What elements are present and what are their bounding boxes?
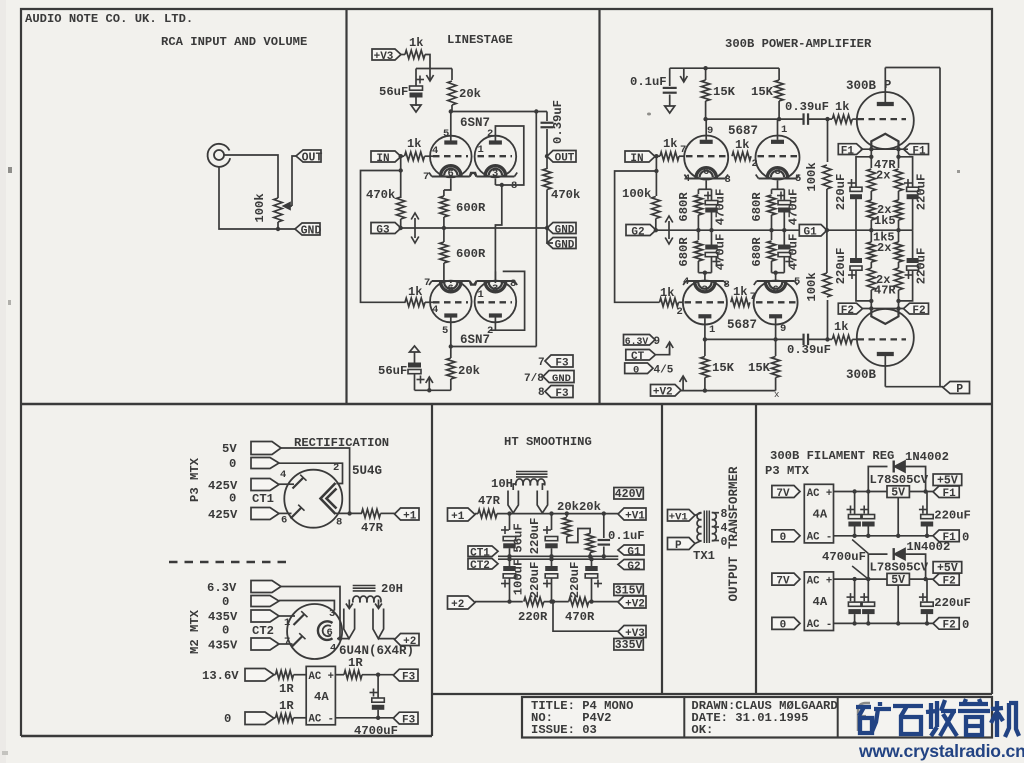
- wire 425V row3 to anode: [279, 483, 294, 485]
- tube 5U4G: [284, 470, 342, 528]
- svg-text:5687: 5687: [727, 318, 757, 332]
- 5U4G anode stroke pin4: [293, 478, 304, 489]
- tag +2 HT: [448, 596, 476, 609]
- 300B lower filament: [871, 309, 898, 324]
- wire F1 bus: [861, 148, 909, 150]
- wire 6.3V to right side: [281, 587, 340, 639]
- svg-text:F2: F2: [912, 305, 925, 317]
- svg-text:2: 2: [752, 158, 758, 170]
- svg-text:F3: F3: [555, 357, 569, 369]
- svg-text:0: 0: [780, 532, 787, 544]
- svg-text:2x: 2x: [876, 169, 890, 183]
- V3 grids dashed: [686, 155, 726, 157]
- svg-text:6: 6: [703, 166, 709, 178]
- capacitor 220uF lower right: [912, 230, 914, 258]
- regulator ground lead F2: [897, 585, 899, 623]
- resistor 20k HT2: [586, 534, 594, 553]
- pot wiper arrow: [290, 205, 292, 207]
- tag GND linestage1: [547, 223, 576, 234]
- boxed label +5V F2: [933, 562, 962, 574]
- 300B lower plate: [877, 352, 894, 356]
- tag GND: [295, 223, 320, 235]
- tag F2 left: [838, 303, 862, 314]
- capacitor 0.39uF lower coupling: [802, 334, 804, 346]
- svg-text:680R: 680R: [750, 192, 764, 222]
- capacitor 470uF #2: [783, 189, 785, 200]
- tag F1 right: [904, 144, 929, 155]
- resistor 1k lower grid: [405, 298, 425, 306]
- wire IN to 1k: [401, 155, 404, 157]
- svg-text:7V: 7V: [776, 488, 790, 500]
- 5U4G cathode chevrons: [321, 483, 336, 514]
- svg-text:G3: G3: [376, 224, 390, 236]
- svg-text:7V: 7V: [776, 575, 790, 587]
- diode 1N4002 F2: [868, 554, 887, 579]
- svg-text:+V1: +V1: [669, 512, 688, 524]
- svg-text:220uF: 220uF: [915, 248, 929, 285]
- tag 425V plain: [251, 479, 279, 491]
- resistor 47R 2x left: [870, 149, 872, 168]
- resistor 15K upper left: [705, 68, 707, 80]
- V4 grids dashed: [685, 301, 726, 303]
- tube 300B lower: [857, 309, 914, 366]
- svg-text:220uF: 220uF: [528, 562, 542, 599]
- svg-text:680R: 680R: [750, 237, 764, 267]
- tag F2 out: [933, 574, 959, 586]
- svg-text:7/8: 7/8: [524, 373, 544, 385]
- svg-text:680R: 680R: [677, 192, 691, 222]
- TX1 secondary taps: [712, 512, 719, 514]
- wire plate rail lower 5687: [704, 318, 706, 339]
- svg-text:0.39uF: 0.39uF: [551, 100, 565, 144]
- svg-text:3: 3: [702, 284, 708, 296]
- tag 6.3V: [624, 335, 656, 346]
- cathode feet notch lower: [470, 281, 477, 285]
- tag GND linestage2: [547, 238, 576, 249]
- svg-text:6: 6: [448, 283, 454, 295]
- wire AC+ F1: [834, 491, 888, 493]
- V2 cathodes top: [432, 280, 470, 282]
- tag IN linestage: [371, 151, 401, 162]
- resistor 1k5 2x right upper: [898, 199, 900, 200]
- wire +V2 rail: [681, 390, 776, 392]
- capacitor 0.1uF HT: [603, 514, 605, 538]
- svg-text:0: 0: [721, 536, 728, 549]
- resistor 600R lower: [443, 228, 445, 242]
- svg-text:G1: G1: [804, 227, 818, 239]
- tube V2 6SN7 lower left triode: [430, 281, 472, 323]
- svg-text:0: 0: [962, 530, 969, 544]
- svg-text:7: 7: [424, 277, 430, 289]
- resistor 47R rect: [362, 509, 381, 517]
- resistor 20k lower: [450, 347, 452, 359]
- wire wiper to OUT: [292, 156, 296, 206]
- svg-text:ISSUE: 03: ISSUE: 03: [531, 723, 597, 737]
- svg-text:GND: GND: [555, 239, 575, 251]
- right rail to P: [939, 68, 941, 387]
- capacitor 56uF lower: [410, 346, 420, 352]
- svg-text:+V3: +V3: [374, 51, 394, 63]
- wire reg out F1: [909, 491, 933, 493]
- svg-text:x: x: [774, 390, 779, 400]
- svg-text:1: 1: [709, 324, 715, 336]
- svg-text:AC +: AC +: [807, 575, 832, 587]
- 6U4N anode stroke pin1: [294, 614, 305, 625]
- svg-text:4A: 4A: [314, 690, 329, 704]
- resistor 1R #1: [274, 674, 276, 676]
- svg-text:F3: F3: [402, 714, 416, 726]
- svg-text:470uF: 470uF: [787, 189, 801, 226]
- svg-text:G2: G2: [631, 226, 644, 238]
- wire 0 to pin2: [279, 463, 343, 483]
- divider horizontal y=404: [21, 403, 992, 406]
- divider vertical HT right x=662: [661, 404, 663, 694]
- resistor 470k left: [400, 171, 402, 199]
- tag 6.3V plain: [251, 581, 281, 593]
- svg-text:RCA INPUT AND VOLUME: RCA INPUT AND VOLUME: [161, 35, 307, 49]
- tube V4 5687 lower right triode: [754, 281, 798, 325]
- svg-text:CT1: CT1: [252, 492, 274, 506]
- wire AC- to F3 bottom: [335, 717, 393, 719]
- bridge box 4A F1: [804, 484, 833, 543]
- tag CT1: [468, 546, 498, 557]
- svg-text:20k: 20k: [458, 364, 480, 378]
- wire AC+ F2: [834, 578, 888, 580]
- svg-text:1k: 1k: [735, 138, 749, 152]
- cathode feet notch upper: [470, 173, 477, 177]
- svg-text:LINESTAGE: LINESTAGE: [447, 33, 513, 47]
- svg-text:435V: 435V: [208, 639, 238, 653]
- svg-text:1k: 1k: [733, 285, 747, 299]
- svg-text:220uF: 220uF: [934, 596, 971, 610]
- svg-text:F2: F2: [942, 576, 955, 588]
- bottom edge of lower boxes y=694: [432, 693, 992, 695]
- tag OUT: [296, 150, 321, 162]
- svg-text:AUDIO NOTE CO. UK. LTD.: AUDIO NOTE CO. UK. LTD.: [25, 12, 193, 26]
- resistor 680R #3 lower: [697, 230, 699, 240]
- tag F2 zero: [933, 618, 959, 630]
- tag 435V plain: [251, 610, 279, 622]
- V2 cathode lead from 600R: [444, 271, 451, 283]
- svg-text:0.1uF: 0.1uF: [630, 75, 667, 89]
- resistor 47R 2x right lower: [898, 263, 900, 268]
- svg-text:4A: 4A: [813, 508, 828, 522]
- wire G3 rail: [401, 227, 549, 229]
- title block frame: [522, 697, 992, 738]
- resistor 15K lower right: [775, 339, 777, 356]
- regulator L78S05CV F2: [887, 573, 909, 585]
- svg-text:100k: 100k: [805, 272, 819, 301]
- capacitor 0.39uF upper coupling: [802, 113, 804, 125]
- svg-text:+V2: +V2: [625, 598, 645, 610]
- svg-text:1k: 1k: [834, 320, 848, 334]
- capacitor 220uF lower left: [855, 230, 857, 258]
- wire RCA to pot top: [224, 155, 278, 198]
- resistor 1k5 2x left upper: [870, 199, 872, 200]
- svg-text:AC -: AC -: [807, 619, 832, 631]
- svg-text:470uF: 470uF: [714, 189, 728, 226]
- TX1 primary leads: [695, 513, 702, 516]
- svg-text:335V: 335V: [615, 639, 643, 652]
- svg-text:300B: 300B: [846, 368, 877, 382]
- svg-text:425V: 425V: [208, 508, 238, 522]
- svg-text:100k: 100k: [622, 187, 651, 201]
- wire 56uF to 20k bottom: [415, 389, 451, 391]
- scan noise marks: [8, 167, 12, 173]
- svg-text:GND: GND: [555, 224, 575, 236]
- resistor 1k 5687 grid upper: [660, 152, 679, 160]
- V1 right plate loop wire: [495, 126, 523, 185]
- svg-text:100k: 100k: [805, 162, 819, 191]
- svg-text:15K: 15K: [713, 85, 736, 99]
- wire CT1 G1 rail: [498, 555, 618, 557]
- svg-text:5U4G: 5U4G: [352, 464, 382, 478]
- svg-text:600R: 600R: [456, 247, 486, 261]
- RCA jack J1: [208, 144, 231, 167]
- svg-text:CT2: CT2: [252, 624, 274, 638]
- wire G2 rail: [656, 229, 799, 231]
- divider vertical output transformer right x=756: [755, 404, 757, 694]
- svg-text:F2: F2: [841, 305, 854, 317]
- lower 100k grid resistor: [827, 300, 829, 339]
- capacitors 4700uF bank F2: [854, 579, 856, 602]
- wire top supply rail: [670, 67, 779, 69]
- wire +V3 to R 1k: [401, 54, 405, 56]
- label 4700uF pointer lower: [852, 566, 868, 579]
- rail tap arrow down top: [683, 68, 685, 82]
- svg-text:+1: +1: [403, 510, 417, 522]
- resistor 1k5 2x left lower: [870, 230, 872, 242]
- wire RCA ground down: [219, 167, 295, 230]
- svg-text:1k: 1k: [409, 36, 423, 50]
- tag +1 rect: [395, 508, 420, 520]
- svg-text:6SN7: 6SN7: [460, 116, 490, 130]
- svg-text:220uF: 220uF: [915, 174, 929, 211]
- svg-text:1R: 1R: [279, 699, 294, 713]
- choke 10H lead loops: [513, 484, 516, 490]
- boxed label 420V: [614, 488, 643, 500]
- right inner rail: [535, 112, 537, 347]
- svg-text:100uF: 100uF: [512, 559, 526, 596]
- svg-text:0: 0: [229, 457, 236, 471]
- svg-text:47R: 47R: [478, 494, 501, 508]
- upper 100k grid resistor: [827, 119, 829, 162]
- svg-text:1R: 1R: [348, 656, 363, 670]
- svg-text:OK:: OK:: [691, 723, 713, 737]
- wire gnd2: [547, 228, 553, 243]
- resistor 220R: [524, 597, 544, 605]
- TX1 secondary winding: [712, 513, 716, 520]
- capacitor 4700uF: [377, 675, 379, 698]
- capacitor 220uF HT1: [551, 514, 553, 530]
- svg-text:5: 5: [795, 173, 801, 185]
- bottle right 10H: [537, 491, 547, 514]
- V1 left cathode: [432, 176, 470, 178]
- svg-text:4700uF: 4700uF: [354, 724, 398, 738]
- svg-text:470uF: 470uF: [787, 234, 801, 271]
- tag G1 inline: [799, 225, 827, 237]
- svg-text:300B: 300B: [846, 79, 877, 93]
- resistor 470k right: [546, 156, 548, 169]
- svg-text:470uF: 470uF: [714, 234, 728, 271]
- V2 left plate lead down: [450, 318, 452, 347]
- svg-text:4: 4: [683, 276, 689, 288]
- tag +V3: [372, 49, 401, 60]
- resistor 47R HT: [475, 513, 478, 515]
- V2 plates: [444, 313, 457, 317]
- svg-text:5: 5: [443, 128, 449, 140]
- tag 7V F1: [772, 486, 800, 498]
- capacitor 470uF #3: [711, 230, 713, 244]
- svg-text:7: 7: [750, 291, 756, 303]
- wire cathode out 6U4N: [337, 638, 349, 640]
- 300B upper filament: [871, 134, 898, 149]
- svg-text:7: 7: [680, 144, 686, 156]
- svg-text:600R: 600R: [456, 201, 486, 215]
- bridge box 4A: [306, 666, 335, 724]
- bridge box 4A F2: [804, 572, 833, 631]
- svg-text:15K: 15K: [712, 361, 735, 375]
- tag 0 plain: [251, 458, 279, 469]
- cathode bars lower: [698, 272, 711, 274]
- svg-text:F1: F1: [912, 145, 926, 157]
- svg-text:7: 7: [423, 171, 429, 183]
- V1 right cathode lead + link down: [494, 179, 496, 186]
- resistor 47R 2x right: [898, 149, 900, 168]
- svg-text:IN: IN: [630, 153, 643, 165]
- svg-text:10H: 10H: [491, 477, 513, 491]
- svg-text:4: 4: [684, 173, 690, 185]
- svg-text:GND: GND: [301, 224, 322, 237]
- V1 left cathode lead: [444, 179, 451, 191]
- resistor 15K upper right: [778, 68, 780, 80]
- resistor 15K lower left: [704, 339, 706, 356]
- svg-text:OUT: OUT: [555, 153, 575, 165]
- svg-text:1R: 1R: [279, 682, 294, 696]
- svg-text:8: 8: [725, 174, 731, 186]
- arrow down into right bottle: [378, 600, 380, 609]
- wire F2 bus: [861, 308, 909, 310]
- svg-text:CT: CT: [631, 351, 645, 363]
- capacitor 470uF #4: [783, 230, 785, 244]
- dashed separator: [169, 561, 291, 564]
- tube V4 5687 lower left triode: [683, 281, 727, 325]
- wire CT jog with arrow: [655, 348, 669, 355]
- tag 5V plain: [251, 442, 281, 455]
- regulator ground lead F1: [897, 498, 899, 536]
- bottle left 20H: [344, 609, 355, 639]
- svg-text:0: 0: [633, 365, 639, 377]
- svg-text:1: 1: [478, 144, 484, 156]
- choke 10H core: [516, 471, 548, 473]
- svg-text:470k: 470k: [366, 188, 395, 202]
- resistor 1k lower mid: [731, 298, 750, 306]
- svg-text:8: 8: [510, 278, 516, 290]
- wire 435V row3 to anode: [279, 615, 295, 617]
- title block divider 1: [683, 697, 685, 738]
- svg-text:56uF: 56uF: [512, 523, 526, 552]
- V2 grids dashed: [433, 301, 468, 303]
- tag F1 out: [933, 486, 959, 498]
- capacitor 470uF #1: [711, 189, 713, 200]
- svg-text:+V2: +V2: [653, 387, 673, 399]
- tag +1 HT: [448, 508, 476, 521]
- svg-text:470R: 470R: [565, 610, 595, 624]
- wire 300B lower plate to P: [885, 386, 940, 388]
- svg-text:435V: 435V: [208, 610, 238, 624]
- svg-text:9: 9: [654, 336, 661, 348]
- watermark chinese characters: [856, 699, 1019, 737]
- 300B upper grid dashed: [858, 118, 907, 120]
- svg-text:1k5: 1k5: [874, 214, 896, 228]
- ground arrow 0.1uF: [665, 106, 675, 113]
- boxed label 335V: [614, 639, 643, 651]
- wire F1 to caps: [856, 157, 871, 187]
- resistor 470R: [569, 597, 589, 605]
- wire AC+ to 1R2: [335, 674, 344, 676]
- svg-text:4: 4: [432, 145, 438, 157]
- svg-text:OUT: OUT: [302, 151, 323, 164]
- svg-text:IN: IN: [376, 153, 389, 165]
- double arrow G2 rail: [668, 221, 670, 239]
- wire reg out F2: [909, 578, 933, 580]
- svg-text:4: 4: [721, 522, 728, 535]
- wire cathode out: [336, 512, 363, 514]
- V4 plates: [698, 314, 711, 318]
- svg-text:220uF: 220uF: [528, 518, 542, 555]
- choke 20H core: [353, 585, 376, 587]
- svg-text:AC +: AC +: [309, 671, 334, 683]
- feedback jog wire: [361, 156, 406, 302]
- tag 435V plain2: [251, 638, 279, 650]
- svg-text:6.3V: 6.3V: [625, 336, 649, 347]
- V3 left cathode network bar top: [705, 181, 707, 190]
- svg-text:20k20k: 20k20k: [557, 500, 601, 514]
- svg-text:1k: 1k: [835, 100, 849, 114]
- wire AC- F1: [834, 535, 934, 537]
- wire 435V row5 to anode: [279, 643, 293, 645]
- svg-text:1k: 1k: [660, 286, 674, 300]
- capacitor 220uF upper left: [848, 182, 856, 184]
- tag +V1 tx: [668, 510, 696, 522]
- svg-text:0: 0: [962, 618, 969, 632]
- svg-text:GND: GND: [552, 373, 571, 385]
- tag 0 F1: [772, 530, 800, 542]
- svg-text:8: 8: [538, 387, 545, 399]
- wire 1k to grid: [425, 155, 434, 157]
- 300B upper plate: [877, 102, 894, 106]
- resistor 1k lower grid: [660, 298, 679, 306]
- resistor 1R #3: [274, 717, 276, 719]
- svg-text:56uF: 56uF: [378, 364, 407, 378]
- svg-text:15K: 15K: [748, 361, 771, 375]
- tag F3 bottom: [393, 712, 418, 724]
- svg-text:6.3V: 6.3V: [207, 581, 237, 595]
- V4 cathode leads: [704, 273, 706, 281]
- svg-text:F1: F1: [942, 488, 956, 500]
- tag P: [943, 382, 970, 394]
- svg-text:F3: F3: [402, 671, 416, 683]
- svg-text:4: 4: [432, 304, 438, 316]
- resistor 680R #1: [697, 189, 699, 194]
- bottle left 10H: [508, 491, 518, 514]
- tag 425V plain2: [251, 508, 279, 520]
- title block divider 2: [837, 697, 839, 738]
- svg-text:20H: 20H: [381, 582, 403, 596]
- svg-text:0.39uF: 0.39uF: [785, 100, 829, 114]
- wire choke out to +2: [378, 638, 394, 640]
- tag +V3 HT: [618, 626, 646, 638]
